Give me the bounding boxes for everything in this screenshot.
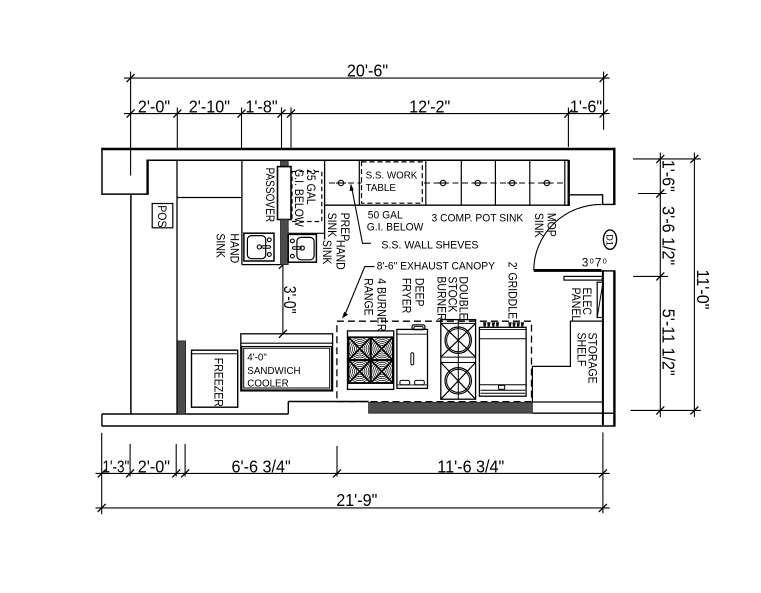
svg-text:2'-10": 2'-10" bbox=[189, 96, 230, 116]
fryer top line bbox=[397, 333, 428, 335]
equipment bbox=[348, 320, 527, 400]
sandwich cooler outer bbox=[241, 334, 333, 391]
dim ext bottom x130.1 bbox=[129, 444, 131, 477]
hand sink 2 outer bbox=[288, 234, 316, 262]
hand sink 1 spout bbox=[262, 246, 271, 248]
hand sink counter left edge bbox=[241, 160, 243, 264]
wall bottom edge bbox=[102, 425, 616, 427]
svg-text:1'-6": 1'-6" bbox=[570, 96, 602, 116]
elec panel diagonal bbox=[597, 282, 603, 317]
dim ext x177.3 bbox=[176, 108, 178, 149]
svg-text:HAND: HAND bbox=[228, 233, 242, 263]
wall sheves arrowhead bbox=[350, 183, 354, 191]
freezer box top line bbox=[192, 353, 238, 355]
dim row2 top line bbox=[124, 113, 610, 115]
wall protrusion left bbox=[101, 148, 103, 194]
top counter front edge bbox=[325, 204, 569, 206]
top counter left edge bbox=[324, 160, 326, 239]
svg-text:S.S. WORK: S.S. WORK bbox=[366, 171, 418, 182]
svg-text:RANGE: RANGE bbox=[362, 278, 376, 315]
dim ext x568.4 bbox=[567, 108, 569, 148]
hand sink 2 counter bbox=[288, 232, 324, 234]
drain pot 4 bbox=[544, 180, 549, 185]
svg-text:2' GRIDDLE: 2' GRIDDLE bbox=[505, 262, 519, 320]
svg-text:FREEZER: FREEZER bbox=[212, 358, 226, 407]
dimension texts top bbox=[103, 61, 714, 510]
hand sink counter bottom bbox=[242, 264, 281, 266]
svg-text:20'-6": 20'-6" bbox=[347, 61, 388, 81]
tick b1 d bbox=[181, 469, 189, 477]
dim ext top left x130.6 bbox=[130, 72, 132, 176]
tick b2 b bbox=[599, 504, 607, 512]
stock burner top X bbox=[441, 323, 476, 357]
griddle top line bbox=[479, 338, 526, 340]
canopy leader bbox=[345, 267, 375, 316]
stock burner bottom circles bbox=[445, 368, 471, 394]
wall bottom left cap bbox=[101, 414, 103, 427]
counter divider x461.3 bbox=[460, 160, 462, 205]
tick b1 b bbox=[126, 469, 134, 477]
dim ext bottom x602.9 bbox=[602, 432, 604, 513]
wall top inner bbox=[148, 159, 569, 161]
svg-text:G.I. BELOW: G.I. BELOW bbox=[292, 169, 306, 228]
tick rv a bbox=[656, 155, 664, 163]
tick rv b bbox=[656, 190, 664, 198]
svg-text:4'-0": 4'-0" bbox=[247, 353, 267, 364]
fryer tank bbox=[412, 325, 425, 330]
svg-text:S.S. WALL SHEVES: S.S. WALL SHEVES bbox=[381, 239, 478, 251]
svg-text:SHELF: SHELF bbox=[575, 333, 589, 367]
hand sink 2 knob top bbox=[291, 239, 295, 243]
hand sink 2 basin bbox=[297, 237, 314, 259]
hand sink 1 knob bottom bbox=[267, 253, 271, 257]
svg-text:SANDWICH: SANDWICH bbox=[247, 366, 300, 377]
wall right lower inner bbox=[602, 271, 604, 425]
passover wall bar lower bbox=[281, 220, 289, 265]
drain crossing dashes bbox=[336, 182, 346, 184]
svg-text:1'-3": 1'-3" bbox=[103, 456, 130, 476]
counter divider x425.8 bbox=[425, 160, 427, 205]
dim ext bottom x185.1 bbox=[184, 444, 186, 477]
svg-text:11'-0": 11'-0" bbox=[693, 270, 713, 310]
hand sink 1 knob top bbox=[267, 238, 271, 242]
svg-text:3'-0": 3'-0" bbox=[280, 286, 300, 314]
svg-text:12'-2": 12'-2" bbox=[409, 96, 450, 116]
wall bottom top edge right bbox=[532, 401, 603, 403]
stock center vertical bbox=[457, 320, 459, 400]
range burner frame bbox=[349, 337, 393, 383]
tick 3-0 a bbox=[279, 261, 287, 269]
fryer foot right bbox=[415, 380, 425, 384]
elec panel bar bbox=[564, 276, 602, 280]
work table dashed box bbox=[362, 162, 423, 203]
mop sink step bbox=[568, 195, 615, 205]
door D1 swing arc bbox=[534, 204, 602, 270]
dim ext bottom x101.7 bbox=[101, 433, 103, 514]
svg-text:FRYER: FRYER bbox=[400, 278, 414, 313]
tick r2 e bbox=[287, 110, 295, 118]
griddle bottom detail bbox=[499, 385, 505, 389]
tick rv f bbox=[690, 406, 698, 414]
dim row 20'-6" line bbox=[124, 77, 610, 79]
tick b1 a bbox=[98, 469, 106, 477]
hand sink 1 basin bbox=[247, 236, 265, 259]
svg-text:HAND: HAND bbox=[333, 240, 347, 270]
hand sink 1 faucet bbox=[257, 245, 261, 249]
dim ext bottom x337 bbox=[336, 446, 338, 477]
wall top outer bbox=[101, 148, 615, 150]
drain pot 2 bbox=[475, 180, 480, 185]
griddle outer bbox=[479, 327, 526, 396]
floor strip bbox=[369, 402, 533, 413]
pot sink counter right edge bbox=[568, 160, 570, 206]
svg-text:1'-6": 1'-6" bbox=[659, 160, 679, 192]
range burner mid horizontal bbox=[349, 359, 393, 361]
svg-text:SINK: SINK bbox=[214, 233, 228, 258]
POS counter front bbox=[177, 197, 242, 199]
svg-text:11'-6 3/4": 11'-6 3/4" bbox=[437, 456, 504, 476]
dim right ext y193.5 bbox=[638, 193, 667, 195]
counter centerline dashed bbox=[329, 182, 565, 184]
storage shelf outline bbox=[532, 321, 603, 402]
griddle bottom line bbox=[479, 384, 526, 386]
hand sink 2 faucet bbox=[300, 246, 304, 250]
stock burner top circles bbox=[445, 327, 471, 353]
dim right ext y276.4 bbox=[633, 275, 668, 277]
range bottom band line bbox=[348, 382, 394, 384]
svg-text:SINK: SINK bbox=[320, 240, 334, 265]
counter divider x564.8 bbox=[564, 160, 566, 205]
svg-text:1'-8": 1'-8" bbox=[245, 96, 277, 116]
svg-text:2'-0": 2'-0" bbox=[138, 456, 170, 476]
dim ext x241.5 bbox=[241, 108, 243, 149]
tick b1 e bbox=[333, 469, 341, 477]
freezer box bbox=[192, 350, 238, 407]
svg-text:21'-9": 21'-9" bbox=[336, 490, 377, 510]
drain pot 1 bbox=[440, 180, 445, 185]
fryer outer bbox=[397, 329, 428, 388]
svg-text:6'-6 3/4": 6'-6 3/4" bbox=[232, 456, 291, 476]
wall protrusion right riser bbox=[146, 160, 148, 195]
tick r2 b bbox=[173, 110, 181, 118]
drain prep bbox=[338, 180, 343, 185]
wall left outer bbox=[130, 194, 132, 415]
dim bottom row1 line bbox=[96, 472, 610, 474]
tick r2 g bbox=[600, 110, 608, 118]
elec panel bbox=[597, 282, 603, 317]
svg-text:COOLER: COOLER bbox=[247, 378, 288, 389]
sandwich cooler inner1 bbox=[242, 347, 332, 390]
sandwich cooler divider bbox=[241, 342, 333, 344]
fryer bottom line bbox=[397, 384, 428, 386]
dim ext x291 bbox=[290, 108, 292, 149]
svg-text:2'-0": 2'-0" bbox=[138, 96, 170, 116]
counter divider x529.8 bbox=[529, 160, 531, 205]
svg-text:BURNER: BURNER bbox=[435, 276, 449, 320]
door jamb cap bbox=[601, 270, 615, 272]
tick rv c bbox=[656, 272, 664, 280]
dim 3'-0" line bbox=[282, 265, 284, 334]
stock top line bbox=[441, 322, 476, 324]
tick b1 c bbox=[172, 469, 180, 477]
labels bbox=[155, 168, 614, 407]
wall right upper bbox=[613, 148, 615, 205]
wall sheves leader bbox=[352, 188, 371, 243]
svg-text:D1: D1 bbox=[604, 234, 614, 246]
dim right outer line bbox=[693, 153, 695, 418]
range burner rings 1 bbox=[349, 338, 394, 383]
stock mid band bbox=[441, 356, 476, 358]
stock burner outer bbox=[441, 320, 476, 400]
tick b2 a bbox=[98, 504, 106, 512]
tick r2 d bbox=[278, 110, 286, 118]
svg-text:SINK: SINK bbox=[325, 213, 339, 238]
counter divider x359.3 bbox=[358, 160, 360, 205]
wall right lower outer bbox=[613, 271, 615, 426]
tick 3-0 b bbox=[279, 330, 287, 338]
partition POS corridor bbox=[176, 160, 178, 414]
dim ext top right x603.6 bbox=[603, 72, 605, 130]
dim ext x281.5 bbox=[281, 108, 283, 149]
dim ext bottom x176.2 bbox=[175, 444, 177, 477]
svg-text:POS: POS bbox=[155, 205, 169, 227]
range outer bbox=[348, 331, 394, 390]
stock burner bottom X bbox=[441, 363, 476, 400]
D1 ellipse bbox=[603, 230, 616, 249]
fryer basket handle bbox=[411, 353, 414, 365]
tick 20-6 right bbox=[600, 74, 608, 82]
svg-text:TABLE: TABLE bbox=[366, 183, 397, 194]
fryer foot left bbox=[400, 380, 410, 384]
wall protrusion bottom bbox=[101, 193, 147, 195]
svg-text:SINK: SINK bbox=[532, 213, 546, 238]
range top band line bbox=[348, 336, 394, 338]
svg-text:50 GAL: 50 GAL bbox=[368, 210, 403, 222]
dimension tick marks bbox=[98, 74, 699, 512]
exhaust canopy dashed box bbox=[337, 321, 532, 401]
svg-text:PANEL: PANEL bbox=[569, 288, 583, 322]
dim right inner line bbox=[659, 153, 661, 418]
tick 20-6 left bbox=[127, 74, 135, 82]
25 gal dashed box bbox=[292, 172, 322, 222]
tick r2 a bbox=[127, 110, 135, 118]
POS box bbox=[152, 204, 173, 228]
passover wall bar upper bbox=[281, 161, 289, 167]
dim right ext y410.4 bbox=[631, 409, 701, 411]
hand sink 2 knob bottom bbox=[291, 254, 295, 258]
tick r2 c bbox=[238, 110, 246, 118]
passover window bbox=[278, 167, 292, 220]
dim right ext y158.9 bbox=[633, 158, 701, 160]
svg-text:G.I. BELOW: G.I. BELOW bbox=[367, 222, 424, 234]
tick rv d bbox=[656, 406, 664, 414]
wall bottom inner line right bbox=[532, 412, 614, 414]
wall bottom top edge mid bbox=[288, 401, 368, 403]
svg-text:3 COMP. POT SINK: 3 COMP. POT SINK bbox=[432, 213, 524, 225]
range burner X diagonals bbox=[349, 337, 393, 383]
canopy arrowhead bbox=[342, 312, 348, 319]
wall bottom step bbox=[287, 402, 289, 415]
griddle knobs bbox=[483, 322, 524, 326]
freezer wall bar bbox=[178, 341, 186, 414]
drain pot 3 bbox=[510, 180, 515, 185]
griddle base lines bbox=[481, 389, 526, 391]
fixtures bbox=[152, 160, 616, 414]
svg-text:3'-6 1/2": 3'-6 1/2" bbox=[659, 206, 679, 265]
range burner mid vertical bbox=[370, 337, 372, 383]
sandwich cooler inner2 bbox=[244, 348, 330, 388]
svg-text:5'-11 1/2": 5'-11 1/2" bbox=[659, 309, 679, 376]
hand sink 1 outer bbox=[244, 233, 274, 261]
tick rv e bbox=[690, 155, 698, 163]
hand sink 2 spout bbox=[293, 247, 302, 249]
svg-text:PASSOVER: PASSOVER bbox=[263, 168, 277, 223]
dim bottom row2 line 21'-9" bbox=[96, 507, 610, 509]
svg-text:8'-6" EXHAUST CANOPY: 8'-6" EXHAUST CANOPY bbox=[377, 261, 496, 273]
tick r2 f bbox=[564, 110, 572, 118]
tick b1 f bbox=[599, 469, 607, 477]
counter divider x495.4 bbox=[494, 160, 496, 205]
door D1 leaf bbox=[534, 269, 602, 272]
wall bottom top edge left bbox=[102, 413, 288, 415]
